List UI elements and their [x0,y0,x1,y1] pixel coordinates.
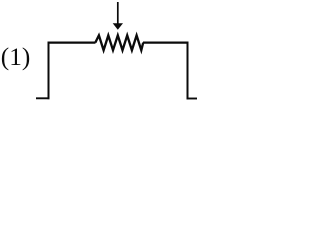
wire top-right horizontal [143,41,189,43]
wire left vertical [48,42,50,100]
wire right vertical [187,42,189,100]
wire bottom-left stub (left terminal) [36,97,50,99]
wire bottom-right stub (right terminal) [187,98,198,100]
svg-text:(1): (1) [1,43,31,71]
wire top-left horizontal [48,41,96,43]
resistor R (zigzag) [95,35,143,50]
arrow (wiper) shaft [117,2,119,24]
arrow (wiper) head [113,23,123,30]
